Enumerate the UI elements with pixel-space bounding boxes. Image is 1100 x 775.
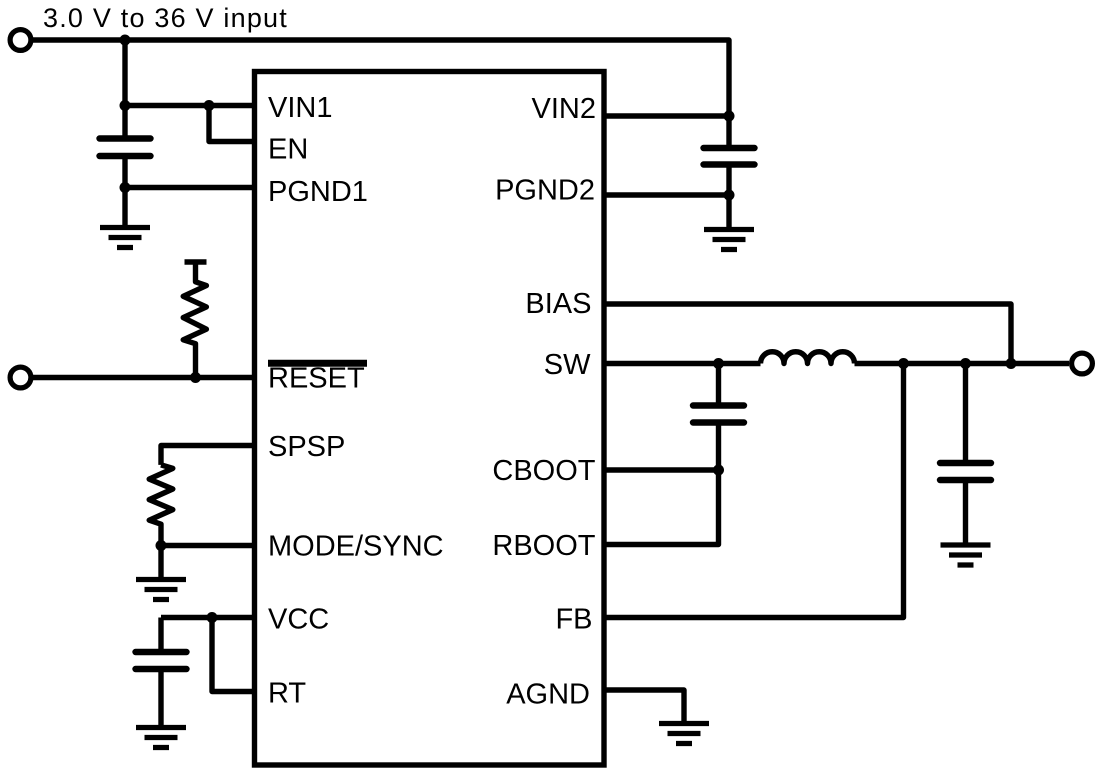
wire: pin FB out and up to output line [604, 364, 904, 618]
capacitor C3 (CBOOT) top lead from SW junction [716, 364, 721, 404]
node PGND1: junction dot [120, 182, 131, 193]
capacitor C4 plates [940, 463, 991, 480]
node PGND2: junction dot [724, 190, 735, 201]
junction: input rail / C1 column [120, 35, 131, 46]
junction: RESET pull-up node [190, 372, 201, 383]
wire: pin BIAS over to output node [604, 304, 1011, 364]
svg-text:CBOOT: CBOOT [492, 455, 595, 487]
junction: VIN2 node [724, 111, 735, 122]
wire: pin SPSP over and down to R2 [161, 446, 255, 465]
capacitor C2 (input bypass, right) plates [704, 148, 755, 165]
svg-text:RESET: RESET [268, 363, 365, 395]
wire: input rail from J1 to VIN2 column [33, 40, 729, 148]
svg-text:MODE/SYNC: MODE/SYNC [268, 531, 444, 563]
svg-text:VIN2: VIN2 [532, 93, 596, 125]
node VIN1: junction dot [120, 100, 131, 111]
junction: RT branch on VCC wire [207, 612, 218, 623]
wire: CBOOT node down to pin RBOOT [604, 470, 719, 545]
svg-text:RBOOT: RBOOT [492, 530, 595, 562]
capacitor C3 plates [693, 406, 744, 423]
junction: SW / CBOOT cap [713, 358, 724, 369]
resistor R2 (MODE pull-down) body [149, 465, 173, 546]
svg-text:SPSP: SPSP [268, 431, 345, 463]
svg-text:EN: EN [268, 134, 308, 166]
svg-text:3.0 V to 36 V input: 3.0 V to 36 V input [43, 3, 288, 33]
wire: PGND1 node to ground [122, 188, 127, 228]
junction: BIAS branch on output line [1006, 358, 1017, 369]
capacitor C4 bottom lead [963, 482, 968, 545]
ground G5 (below C5) [136, 728, 186, 748]
terminal J1 (input, open circle) [10, 30, 31, 51]
wire: PGND1 node to pin PGND1 [125, 185, 255, 190]
terminal J2 (RESET, open circle) [10, 367, 31, 388]
inductor L1 [761, 352, 855, 364]
wire: J2 to pin RESET [33, 375, 255, 380]
ground G3 (below R2) [136, 580, 186, 600]
ground G4 (below C4) [941, 545, 991, 565]
capacitor C1 (input bypass, left) top lead [122, 106, 127, 137]
resistor R1 body [183, 262, 206, 378]
ground G6 (AGND) [659, 724, 709, 744]
wire: VIN1 node to pin VIN1 [125, 103, 255, 108]
svg-text:PGND1: PGND1 [268, 176, 368, 208]
wire: pin PGND2 to PGND2 node [604, 192, 729, 197]
IC U1 outline [255, 72, 605, 766]
capacitor C1 bottom lead [122, 158, 127, 188]
svg-text:VIN1: VIN1 [268, 92, 332, 124]
svg-text:RT: RT [268, 678, 306, 710]
svg-text:AGND: AGND [506, 679, 590, 711]
junction: MODE node [156, 540, 167, 551]
junction: CBOOT node [713, 465, 724, 476]
svg-text:PGND2: PGND2 [495, 175, 595, 207]
terminal J3 (output, open circle) [1072, 353, 1093, 374]
capacitor C4 (output) top lead [963, 364, 968, 461]
junction: FB branch on output line [898, 358, 909, 369]
capacitor C3 bottom lead to CBOOT node [716, 425, 721, 471]
wire: inductor to output terminal [855, 361, 1070, 366]
capacitor C2 bottom lead [726, 167, 731, 196]
junction: EN branch on VIN1 wire [204, 100, 215, 111]
wire: pin SW to inductor [604, 361, 761, 366]
wire: C1 column down to VIN1 node [122, 40, 127, 106]
capacitor C5 (VCC) top lead [158, 618, 163, 650]
wire: PGND2 node to ground [726, 195, 731, 230]
svg-text:SW: SW [544, 349, 591, 381]
wire: pin MODE/SYNC to R2 node [161, 543, 255, 548]
ground G2 (below C2) [704, 230, 754, 250]
wire: pin VCC to C5 column [161, 615, 255, 620]
svg-text:BIAS: BIAS [525, 288, 591, 320]
resistor R1 (RESET pull-up) top bar [185, 259, 207, 264]
wire: pin CBOOT to CBOOT node [604, 467, 719, 472]
capacitor C5 plates [136, 652, 187, 669]
capacitor C5 bottom lead [158, 671, 163, 728]
wire: pin AGND to ground stub [604, 690, 684, 724]
capacitor C1 plates [100, 139, 151, 157]
ground G1 (below C1) [100, 228, 150, 248]
svg-text:VCC: VCC [268, 604, 329, 636]
wire: MODE node to ground [158, 546, 163, 580]
wire: pin VIN2 to C2 column [604, 113, 729, 118]
junction: output cap branch [960, 358, 971, 369]
wire: RT branch down and into pin RT [212, 618, 255, 692]
wire: EN branch down and into pin EN [209, 106, 255, 142]
svg-text:FB: FB [555, 604, 592, 636]
overline for RESET [268, 360, 367, 367]
